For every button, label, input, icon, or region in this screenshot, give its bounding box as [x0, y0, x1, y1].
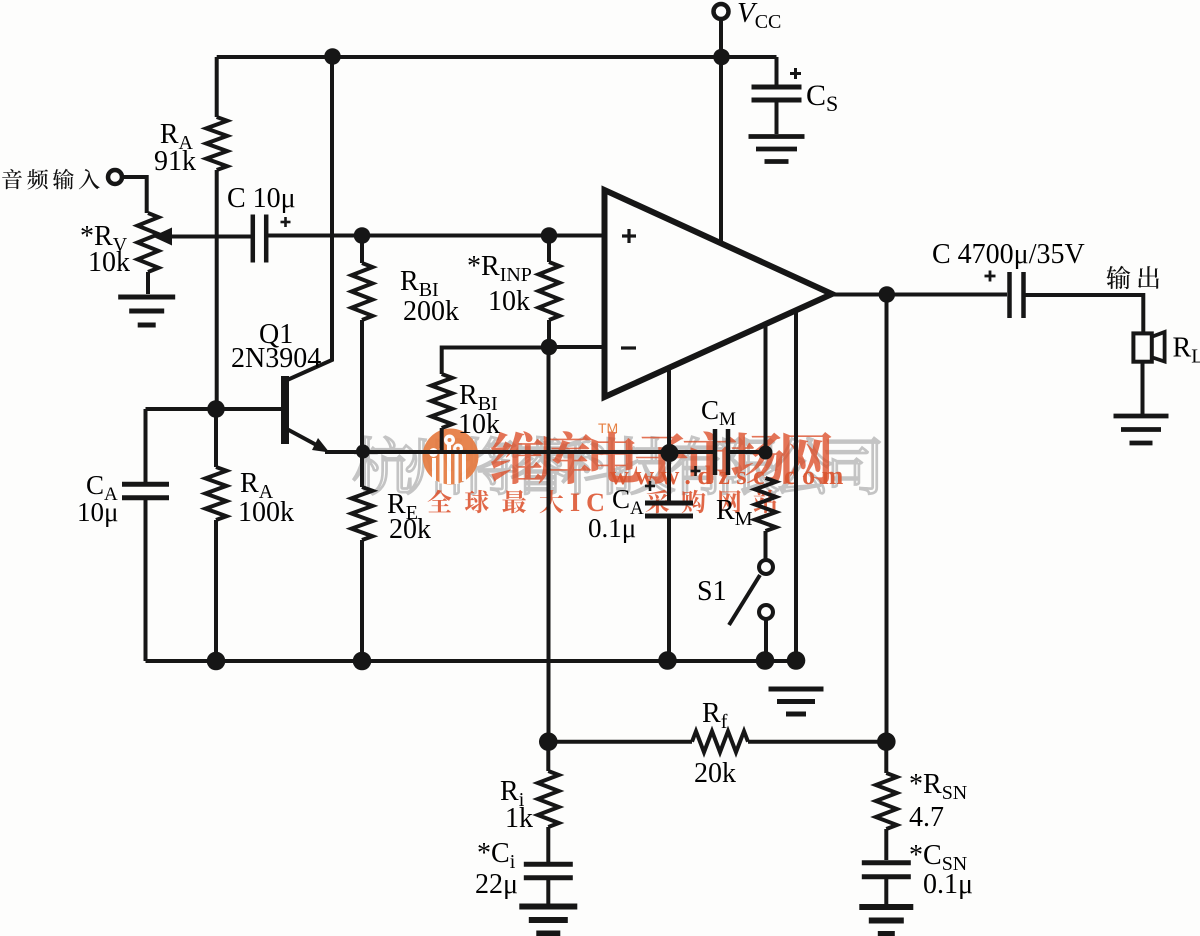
- capacitor CA 10u: [144, 409, 148, 482]
- watermark logo: [423, 429, 479, 485]
- wire inverting input: [549, 345, 604, 349]
- resistor RA 100k: [214, 409, 218, 467]
- resistor RBI 200k: [360, 236, 364, 264]
- svg-text:10k: 10k: [458, 409, 500, 440]
- svg-text:2N3904: 2N3904: [231, 343, 321, 374]
- wire inverting node to Rf: [547, 347, 551, 742]
- svg-text:100k: 100k: [238, 497, 294, 528]
- node Rf right: [877, 732, 896, 751]
- svg-text:0.1μ: 0.1μ: [588, 513, 636, 543]
- node collector bus junction: [324, 48, 341, 65]
- node Rf left: [539, 732, 558, 751]
- wire mute pin to RM: [764, 324, 768, 455]
- node emitter RE: [356, 445, 370, 459]
- ground Ci: [519, 904, 577, 910]
- svg-text:10k: 10k: [488, 286, 530, 317]
- wire emitter node: [325, 450, 714, 454]
- switch S1: [759, 560, 773, 574]
- ground CS: [749, 134, 805, 139]
- svg-text:10μ: 10μ: [77, 497, 118, 527]
- node RM top: [759, 446, 773, 460]
- node inverting input: [541, 339, 558, 356]
- wire op-amp ground pin: [794, 310, 798, 661]
- node output: [879, 286, 896, 303]
- node bus CA: [207, 652, 226, 671]
- node RINP top: [541, 227, 558, 244]
- wire Q1 base: [146, 407, 282, 411]
- wire top supply bus: [217, 55, 777, 59]
- resistor RSN 4.7: [884, 742, 888, 773]
- svg-text:S1: S1: [697, 576, 727, 607]
- svg-text:200k: 200k: [403, 296, 459, 327]
- svg-text:10k: 10k: [88, 247, 130, 278]
- speaker RL: [1133, 333, 1151, 361]
- node bus S1: [756, 651, 775, 670]
- node Q1 base: [207, 400, 225, 418]
- ground RL: [1114, 414, 1169, 419]
- capacitor CS: [775, 57, 779, 86]
- svg-text:0.1μ: 0.1μ: [923, 869, 973, 900]
- svg-text:C 10μ: C 10μ: [227, 183, 296, 214]
- label output: [1106, 266, 1159, 289]
- input terminal audio-in: [2, 169, 100, 190]
- node CM CA2: [661, 444, 679, 462]
- capacitor C 10u: [236, 235, 251, 239]
- node RBI200k top: [354, 227, 371, 244]
- wire bottom bus: [146, 659, 801, 663]
- resistor RE 20k: [360, 452, 364, 487]
- svg-text:C 4700μ/35V: C 4700μ/35V: [932, 239, 1085, 270]
- svg-text:TM: TM: [598, 420, 618, 436]
- wire output to Rf: [885, 295, 889, 742]
- resistor RBI 10k: [442, 348, 549, 375]
- Vcc terminal: [714, 4, 729, 19]
- resistor RM: [755, 478, 776, 531]
- svg-text:20k: 20k: [694, 758, 736, 789]
- transistor Q1 2N3904: [281, 376, 289, 444]
- resistor RA 91k: [215, 57, 219, 117]
- watermark gray company name: [354, 437, 880, 494]
- node bus ground: [787, 651, 806, 670]
- capacitor CM: [713, 429, 718, 475]
- wire comp pin to CA2: [667, 368, 671, 452]
- capacitor CSN 0.1u: [862, 860, 911, 865]
- capacitor CA2 0.1u: [667, 453, 671, 501]
- ground RV: [118, 295, 175, 300]
- wire op-amp output: [832, 293, 1007, 297]
- resistor Ri 1k: [546, 742, 550, 771]
- svg-text:1k: 1k: [505, 803, 533, 834]
- capacitor C 4700u/35V: [1007, 272, 1012, 318]
- node Vcc bus junction: [713, 49, 730, 66]
- resistor Rf 20k: [548, 740, 692, 744]
- potentiometer RV 10k: [138, 213, 159, 272]
- ground main: [769, 687, 824, 692]
- node bus RE: [353, 652, 372, 671]
- watermark red text: [491, 431, 831, 484]
- svg-text:22μ: 22μ: [475, 869, 518, 900]
- node bus CA2: [658, 651, 677, 670]
- svg-text:20k: 20k: [389, 514, 431, 545]
- svg-text:4.7: 4.7: [909, 802, 944, 833]
- capacitor Ci 22u: [524, 862, 573, 867]
- resistor RINP 10k: [547, 236, 551, 263]
- ground CSN: [859, 904, 913, 910]
- svg-text:91k: 91k: [154, 146, 196, 177]
- op-amp U1: [605, 190, 833, 397]
